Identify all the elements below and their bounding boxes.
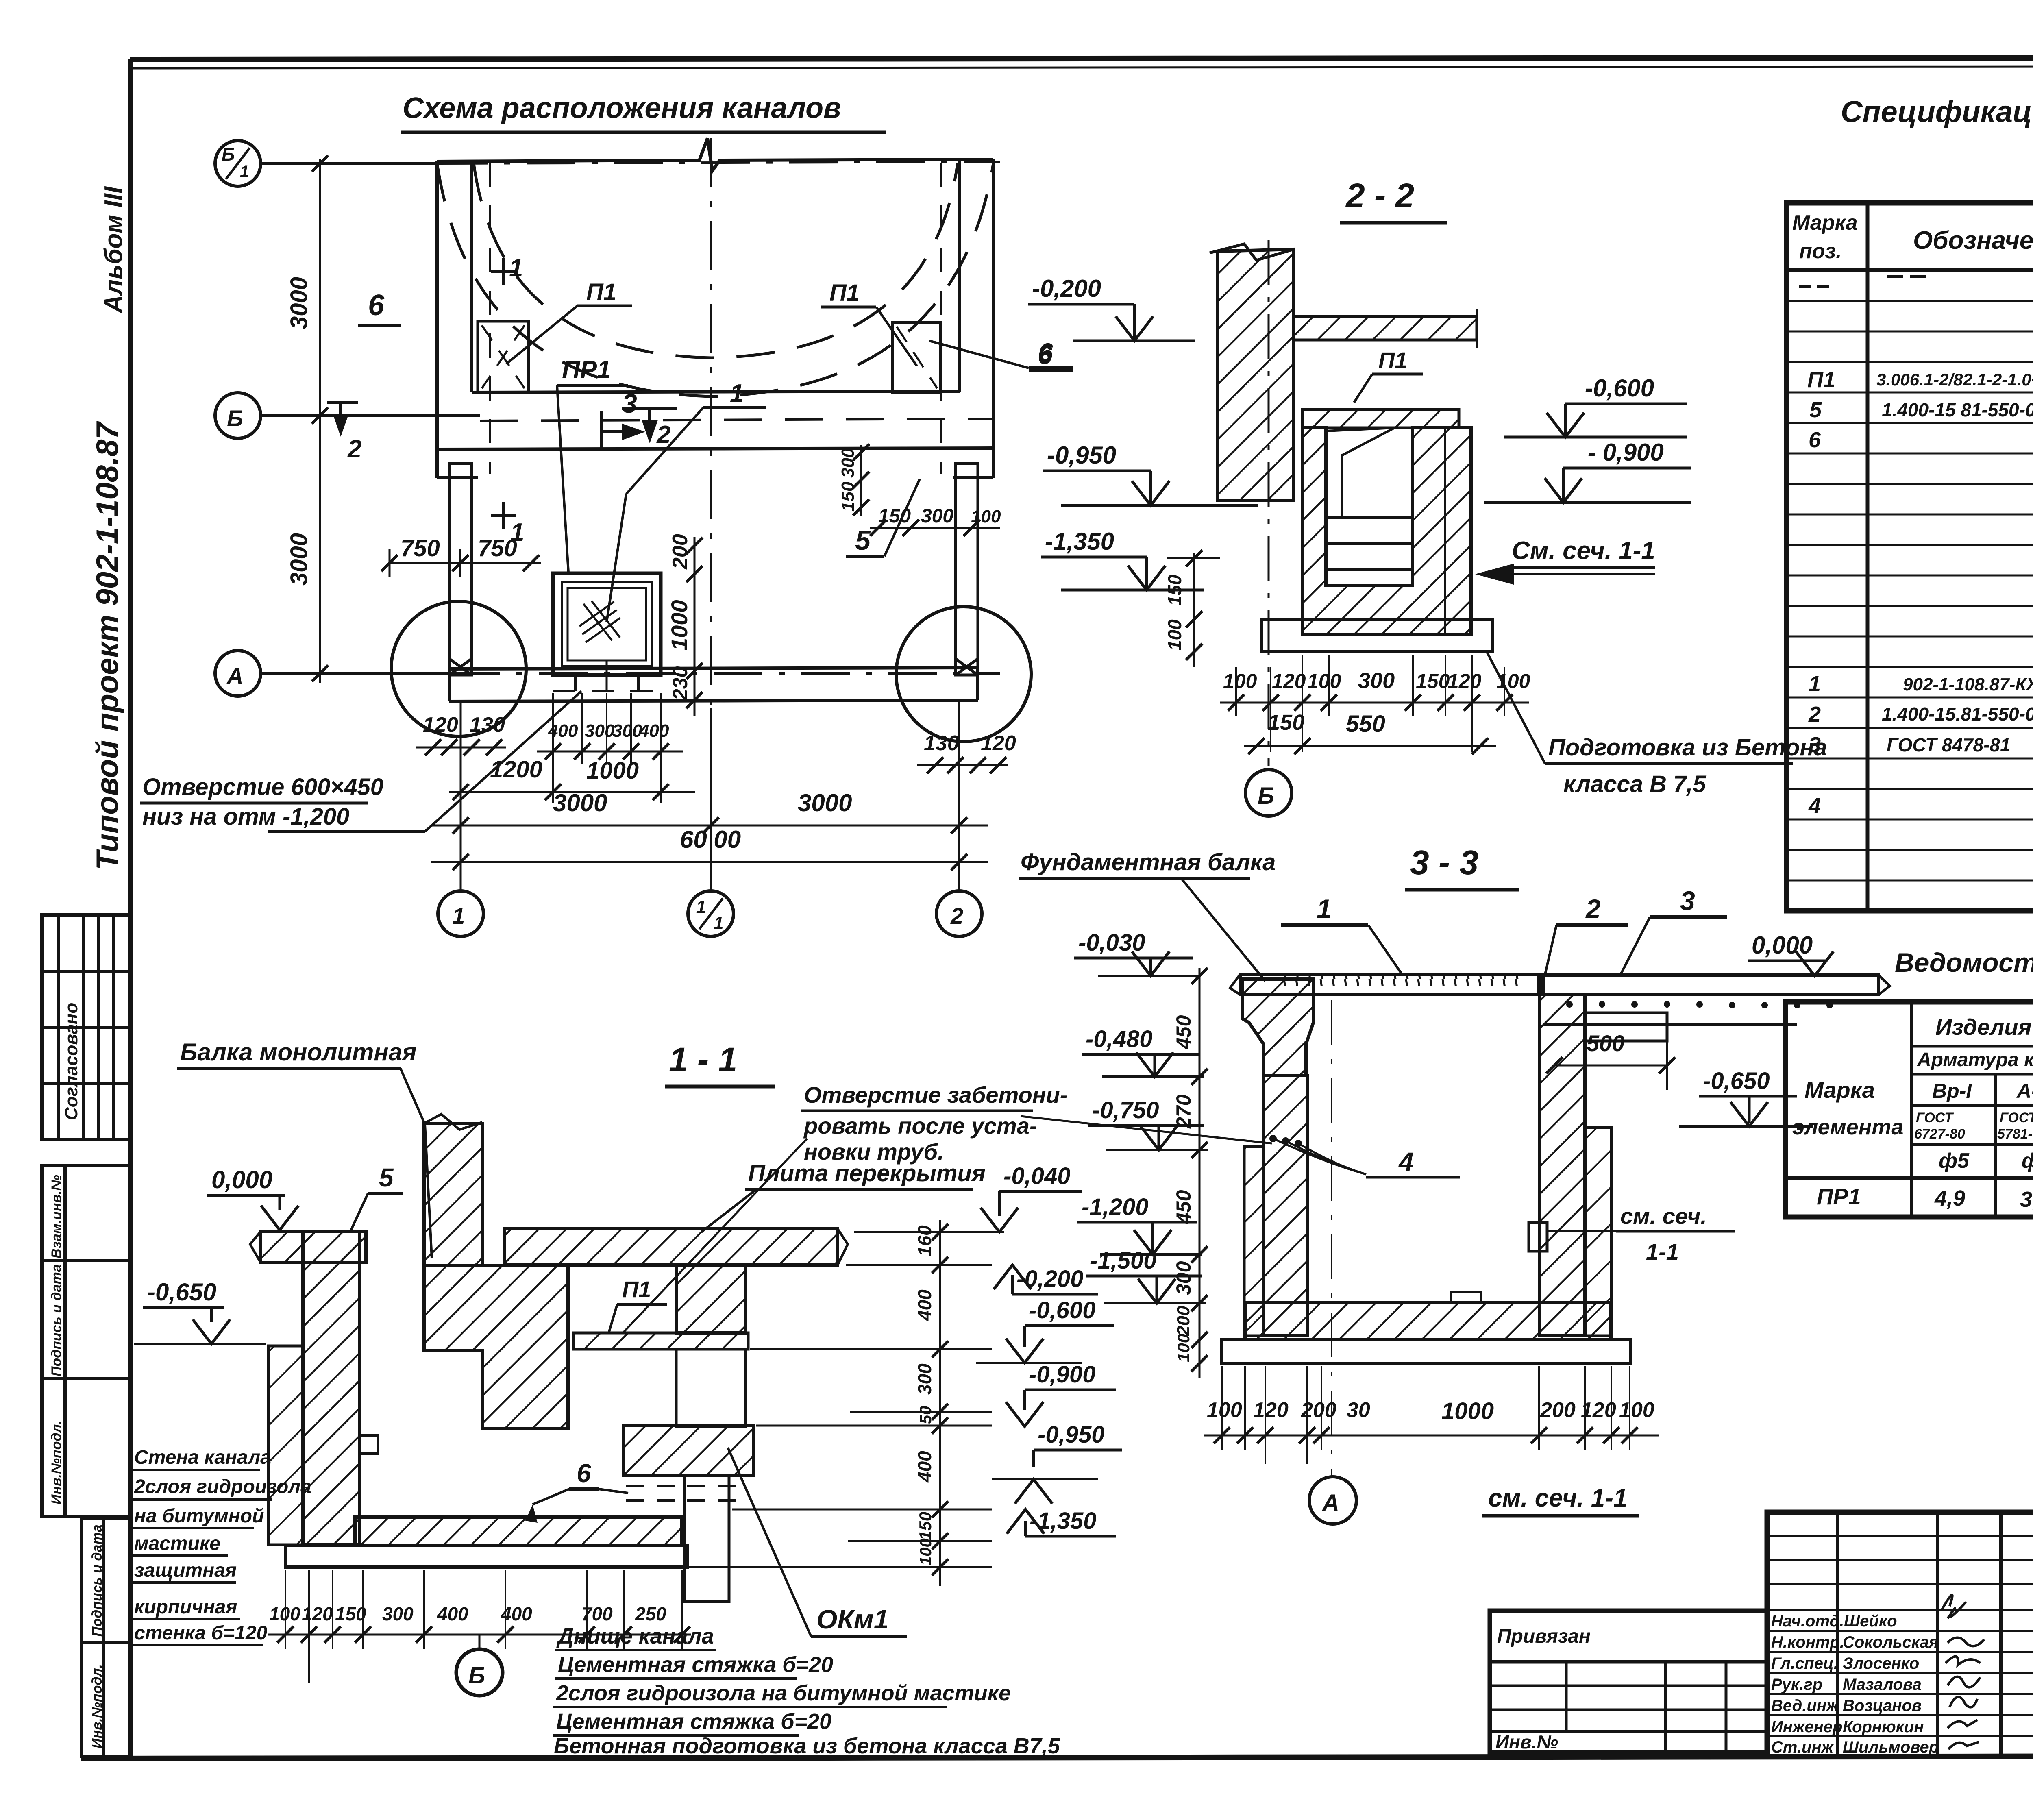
svg-text:300: 300	[1172, 1261, 1195, 1295]
svg-text:Злосенко: Злосенко	[1843, 1655, 1919, 1672]
svg-text:ровать после уста-: ровать после уста-	[803, 1113, 1037, 1139]
bottom dims row	[269, 1603, 666, 1624]
svg-text:2слоя гидроизола: 2слоя гидроизола	[134, 1476, 311, 1498]
svg-text:-0,200: -0,200	[1016, 1266, 1083, 1292]
grid axis B	[260, 414, 480, 417]
svg-text:6: 6	[368, 289, 385, 322]
svg-text:Ст.инж: Ст.инж	[1771, 1738, 1835, 1756]
svg-text:-0,030: -0,030	[1078, 930, 1145, 956]
svg-text:4: 4	[1398, 1147, 1414, 1177]
bottom slab днище	[355, 1517, 682, 1545]
left small slab	[261, 1232, 366, 1263]
bottom notes underlined	[554, 1624, 1060, 1758]
svg-text:3000: 3000	[553, 789, 607, 816]
svg-text:550: 550	[1346, 711, 1385, 737]
svg-text:2: 2	[1585, 894, 1601, 924]
bottom slab	[1245, 1303, 1611, 1339]
1-1 elevations right side	[1003, 1163, 1104, 1534]
centerline axis Б	[1268, 240, 1270, 766]
left outer wall	[435, 161, 439, 478]
right vertical dim chain of 1-1	[939, 1220, 941, 1586]
section mark 3	[602, 411, 640, 449]
svg-text:на битумной: на битумной	[134, 1505, 264, 1527]
pit dashed bottom	[553, 675, 661, 691]
svg-text:100: 100	[1164, 619, 1185, 651]
svg-text:5: 5	[855, 525, 871, 556]
svg-text:1: 1	[1317, 894, 1332, 924]
circle Б below	[1245, 770, 1292, 816]
svg-text:П1: П1	[1378, 347, 1407, 373]
svg-text:Схема расположения каналов: Схема расположения каналов	[403, 92, 841, 124]
small protrusion on wall	[360, 1435, 378, 1454]
svg-text:ПР1: ПР1	[562, 356, 611, 384]
svg-text:Марка: Марка	[1792, 211, 1858, 235]
svg-text:300: 300	[382, 1603, 414, 1624]
svg-text:1000: 1000	[1441, 1398, 1494, 1424]
svg-text:100: 100	[1207, 1398, 1242, 1422]
svg-text:Б: Б	[222, 144, 235, 165]
svg-text:-1,200: -1,200	[1082, 1194, 1148, 1220]
signatures scribbles	[1942, 1595, 1984, 1749]
right column above slab	[676, 1265, 746, 1333]
circle Б	[479, 1635, 481, 1649]
svg-text:6727-80: 6727-80	[1914, 1126, 1965, 1142]
svg-text:0,000: 0,000	[1752, 932, 1813, 959]
svg-text:Нач.отд.: Нач.отд.	[1771, 1612, 1844, 1630]
svg-text:-0,750: -0,750	[1092, 1097, 1159, 1123]
svg-text:Плита перекрытия: Плита перекрытия	[748, 1160, 986, 1186]
svg-text:Шильмовер: Шильмовер	[1843, 1738, 1939, 1756]
svg-text:Б: Б	[227, 405, 243, 431]
building outline	[437, 138, 993, 478]
фундаментная балка trapezoid left	[1242, 979, 1313, 1075]
svg-text:1: 1	[714, 913, 723, 933]
svg-text:3000: 3000	[798, 789, 852, 816]
svg-text:П1: П1	[829, 280, 860, 306]
svg-text:Вр-I: Вр-I	[1932, 1080, 1972, 1102]
svg-text:250: 250	[635, 1603, 666, 1624]
right wall	[1539, 995, 1585, 1336]
dims 750 750	[390, 562, 541, 564]
left elevations	[1078, 930, 1159, 1274]
svg-text:160: 160	[914, 1225, 935, 1256]
svg-text:200: 200	[1540, 1398, 1576, 1422]
svg-text:150: 150	[916, 1512, 935, 1540]
П1 slab left (plan)	[478, 321, 529, 392]
svg-text:150: 150	[838, 481, 858, 512]
svg-text:Взам.инв.№: Взам.инв.№	[49, 1175, 64, 1258]
svg-text:Инженер: Инженер	[1771, 1718, 1842, 1736]
svg-text:см. сеч.: см. сеч.	[1620, 1203, 1707, 1229]
svg-text:3,6: 3,6	[2020, 1187, 2033, 1212]
svg-text:5: 5	[1809, 398, 1822, 422]
svg-text:300: 300	[914, 1363, 935, 1395]
section mark 1 upper	[491, 258, 516, 285]
svg-text:-0,600: -0,600	[1029, 1297, 1095, 1324]
svg-text:902-1-108.87-КЖ1.1-Щ1: 902-1-108.87-КЖ1.1-Щ1	[1903, 675, 2033, 694]
svg-text:Альбом III: Альбом III	[100, 186, 128, 314]
detail circles	[391, 601, 526, 736]
svg-text:Рук.гр: Рук.гр	[1771, 1676, 1822, 1694]
foundation beam at axis A	[449, 668, 978, 701]
central mass stepped	[424, 1266, 568, 1428]
channel walls	[1302, 428, 1471, 635]
top slab плита перекрытия	[505, 1229, 838, 1265]
svg-text:-0,600: -0,600	[1585, 374, 1654, 402]
svg-text:300: 300	[838, 448, 858, 478]
svg-text:6: 6	[1038, 340, 1052, 370]
svg-text:200: 200	[668, 534, 692, 570]
svg-text:Обозначение: Обозначение	[1913, 226, 2033, 255]
vertical dim line 3000/3000	[319, 159, 321, 683]
svg-text:1-1: 1-1	[1646, 1239, 1679, 1265]
svg-text:поз.: поз.	[1799, 239, 1842, 263]
bottom axis circles	[438, 891, 483, 936]
svg-text:См. сеч. 1-1: См. сеч. 1-1	[1512, 537, 1655, 565]
svg-text:Б: Б	[468, 1662, 485, 1689]
svg-text:6: 6	[1809, 428, 1821, 452]
extension lines to bottom circles	[460, 701, 462, 890]
rungs inside	[1326, 516, 1413, 519]
svg-text:Спецификация к схеме рас: Спецификация к схеме расположения	[1841, 95, 2033, 128]
svg-text:-0,650: -0,650	[1703, 1068, 1770, 1094]
left stamp table 2	[42, 1165, 129, 1517]
svg-text:кирпичная: кирпичная	[134, 1596, 237, 1618]
small ledge inside bottom	[1451, 1292, 1481, 1303]
svg-text:ГОСТ: ГОСТ	[1916, 1110, 1954, 1126]
svg-text:низ на отм -1,200: низ на отм -1,200	[142, 803, 349, 830]
grid axis B/1	[260, 162, 439, 165]
svg-text:2: 2	[656, 421, 670, 449]
circle A	[1331, 1476, 1333, 1477]
svg-text:3000: 3000	[286, 277, 312, 329]
svg-text:Марка: Марка	[1804, 1077, 1875, 1103]
svg-text:150: 150	[1164, 575, 1185, 606]
beam band across	[472, 391, 960, 392]
svg-text:300: 300	[585, 721, 615, 741]
svg-text:400: 400	[914, 1289, 935, 1321]
svg-text:Цементная стяжка б=20: Цементная стяжка б=20	[558, 1652, 833, 1677]
svg-text:2: 2	[1808, 702, 1821, 727]
svg-text:-1,350: -1,350	[1030, 1508, 1096, 1534]
svg-text:750: 750	[401, 535, 440, 562]
svg-text:-1,350: -1,350	[1045, 528, 1114, 555]
svg-text:3: 3	[1809, 733, 1821, 757]
left wall	[303, 1232, 360, 1545]
vertical small dims left of base	[1193, 553, 1195, 667]
svg-text:0,000: 0,000	[211, 1166, 272, 1193]
svg-text:230: 230	[669, 666, 692, 701]
svg-text:400: 400	[914, 1451, 935, 1483]
svg-text:-1,500: -1,500	[1090, 1247, 1156, 1274]
svg-text:100: 100	[917, 1538, 935, 1565]
svg-text:100: 100	[1307, 670, 1341, 692]
svg-text:ГОСТ: ГОСТ	[2000, 1110, 2033, 1126]
svg-text:5781-82*: 5781-82*	[1997, 1126, 2033, 1142]
svg-text:750: 750	[478, 535, 517, 562]
extension lines down	[1236, 655, 1504, 752]
svg-text:1 - 1: 1 - 1	[669, 1041, 737, 1079]
svg-text:2: 2	[347, 435, 361, 463]
svg-text:4: 4	[1808, 794, 1821, 818]
svg-text:-0,480: -0,480	[1086, 1026, 1152, 1052]
svg-text:1: 1	[240, 163, 249, 181]
svg-text:П1: П1	[586, 279, 616, 305]
svg-text:см. сеч. 1-1: см. сеч. 1-1	[1488, 1484, 1627, 1512]
svg-text:П1: П1	[1807, 368, 1835, 392]
svg-text:- 0,900: - 0,900	[1588, 439, 1664, 466]
svg-text:-0,900: -0,900	[1029, 1361, 1095, 1388]
svg-text:Инв.№: Инв.№	[1495, 1731, 1558, 1753]
svg-text:450: 450	[1172, 1015, 1195, 1049]
svg-text:Гл.спец.: Гл.спец.	[1771, 1655, 1838, 1672]
svg-text:Фундаментная балка: Фундаментная балка	[1021, 849, 1276, 875]
svg-text:300: 300	[921, 505, 953, 527]
left wall	[1264, 1075, 1307, 1336]
svg-text:120: 120	[423, 713, 458, 737]
svg-text:3: 3	[622, 388, 637, 418]
svg-text:ПР1: ПР1	[1817, 1184, 1861, 1209]
dashed circle wall of pump station	[474, 163, 958, 358]
svg-text:2 - 2: 2 - 2	[1345, 176, 1414, 215]
svg-text:1200: 1200	[490, 756, 542, 783]
svg-text:100: 100	[1223, 670, 1257, 692]
svg-text:3000: 3000	[286, 533, 312, 586]
svg-text:1000: 1000	[666, 600, 692, 651]
svg-text:1: 1	[1809, 672, 1821, 696]
svg-text:-0,040: -0,040	[1003, 1163, 1070, 1189]
svg-text:Мазалова: Мазалова	[1843, 1676, 1922, 1694]
svg-text:А: А	[1321, 1490, 1339, 1516]
svg-text:120: 120	[1253, 1398, 1289, 1422]
svg-text:200: 200	[1301, 1398, 1336, 1422]
svg-text:130: 130	[470, 713, 505, 737]
svg-text:150: 150	[335, 1603, 366, 1624]
svg-text:300: 300	[612, 721, 642, 741]
vertical dim chain	[1199, 968, 1201, 1378]
svg-text:-0,650: -0,650	[147, 1278, 216, 1306]
svg-text:1.400-15 81-550-04: 1.400-15 81-550-04	[1882, 399, 2033, 420]
svg-text:3 - 3: 3 - 3	[1410, 843, 1478, 882]
svg-text:Отверстие 600×450: Отверстие 600×450	[142, 774, 383, 800]
П1 slab right (plan)	[892, 322, 940, 392]
svg-text:120: 120	[1447, 670, 1482, 692]
svg-text:-0,950: -0,950	[1047, 442, 1116, 469]
svg-text:120: 120	[1272, 670, 1306, 692]
svg-text:300: 300	[1358, 668, 1395, 693]
svg-text:Сокольская: Сокольская	[1843, 1633, 1938, 1651]
svg-text:ОКм1: ОКм1	[816, 1604, 888, 1634]
channel: top slab piece	[1302, 409, 1459, 428]
svg-text:Возцанов: Возцанов	[1843, 1697, 1922, 1715]
svg-text:Днище канала: Днище канала	[556, 1624, 714, 1648]
svg-text:120: 120	[981, 731, 1016, 755]
svg-text:ф12: ф12	[2022, 1149, 2033, 1173]
left margin album text	[61, 186, 128, 1120]
horizontal level lines to the right chain	[689, 1232, 1004, 1567]
svg-text:Ведомость расхода стали н: Ведомость расхода стали на элемент, кг	[1895, 947, 2033, 977]
left stamp table 1	[42, 915, 129, 1139]
svg-text:Вед.инж: Вед.инж	[1771, 1697, 1839, 1715]
svg-text:2: 2	[950, 903, 963, 929]
svg-text:защитная: защитная	[134, 1560, 237, 1581]
name rows	[1771, 1612, 1939, 1756]
svg-text:Привязан: Привязан	[1497, 1626, 1591, 1647]
svg-text:Изделия арматурные: Изделия арматурные	[1935, 1014, 2033, 1040]
svg-text:П1: П1	[622, 1276, 651, 1302]
svg-text:Стена канала: Стена канала	[134, 1447, 271, 1468]
svg-text:1: 1	[730, 379, 744, 407]
vertical dim chain right of pit: 200 1000 230	[694, 537, 696, 716]
pit ПР1	[553, 573, 661, 675]
svg-text:100: 100	[1174, 1334, 1193, 1362]
right outer wall	[992, 159, 995, 478]
svg-text:Б: Б	[1258, 783, 1274, 809]
top slab left part	[1240, 974, 1539, 995]
top wall line	[437, 138, 993, 171]
ОКм1 block	[624, 1426, 754, 1476]
svg-text:30: 30	[1347, 1398, 1370, 1422]
svg-text:1.400-15.81-550-07: 1.400-15.81-550-07	[1882, 703, 2033, 725]
svg-text:Балка монолитная: Балка монолитная	[180, 1038, 416, 1066]
columns below	[449, 464, 978, 675]
grid axis A	[260, 672, 451, 675]
svg-text:3.006.1-2/82.1-2-1.0÷016: 3.006.1-2/82.1-2-1.0÷016	[1876, 370, 2033, 389]
svg-text:ф5: ф5	[1939, 1149, 1970, 1173]
П1 slab thin	[574, 1333, 748, 1349]
wall hidden dashed verticals	[489, 163, 491, 474]
center axis 1/1 dash-dot	[710, 138, 712, 708]
big wall hatched	[1218, 249, 1294, 501]
svg-text:200: 200	[1173, 1306, 1193, 1336]
svg-text:класса В 7,5: класса В 7,5	[1563, 771, 1706, 797]
dots + label 4	[1269, 1135, 1277, 1142]
svg-text:Шейко: Шейко	[1844, 1612, 1897, 1630]
bottom dims	[1207, 1398, 1654, 1424]
pit scribble	[579, 601, 620, 642]
svg-text:2слоя гидроизола на битумной м: 2слоя гидроизола на битумной мастике	[556, 1681, 1011, 1705]
svg-text:Инв.№подл.: Инв.№подл.	[49, 1420, 64, 1504]
svg-text:-0,200: -0,200	[1032, 275, 1101, 302]
svg-text:500: 500	[1587, 1030, 1624, 1056]
балка монолитная column	[424, 1123, 482, 1266]
svg-text:130: 130	[924, 731, 959, 755]
svg-text:450: 450	[1172, 1190, 1195, 1224]
svg-text:400: 400	[639, 721, 669, 741]
top slab right part	[1543, 975, 1878, 995]
svg-text:4,9: 4,9	[1934, 1186, 1965, 1210]
section marks 2 at axis Б	[327, 403, 358, 432]
svg-text:Цементная стяжка б=20: Цементная стяжка б=20	[556, 1709, 831, 1734]
base slab	[1261, 619, 1493, 652]
svg-text:6: 6	[577, 1459, 591, 1488]
inner centerline	[1331, 1000, 1332, 1476]
svg-text:100: 100	[971, 507, 1001, 527]
svg-text:1: 1	[696, 897, 706, 917]
svg-text:А-III: А-III	[2016, 1080, 2033, 1102]
svg-text:5: 5	[379, 1163, 394, 1192]
svg-text:150: 150	[1268, 710, 1304, 735]
svg-text:Арматура класса: Арматура класса	[1917, 1049, 2033, 1071]
svg-text:1: 1	[509, 254, 523, 282]
svg-text:Типовой проект 902-1-108.87: Типовой проект 902-1-108.87	[90, 421, 125, 870]
left stamp table 3	[81, 1519, 129, 1757]
svg-text:50: 50	[917, 1406, 935, 1424]
svg-text:270: 270	[1172, 1094, 1195, 1129]
svg-text:мастике: мастике	[134, 1533, 220, 1554]
svg-text:Отверстие забетони-: Отверстие забетони-	[804, 1082, 1067, 1108]
svg-text:ГОСТ 8478-81: ГОСТ 8478-81	[1887, 734, 2011, 755]
svg-text:А: А	[226, 663, 243, 689]
svg-text:стенка б=120: стенка б=120	[134, 1622, 268, 1644]
left label stack	[134, 1447, 311, 1644]
svg-text:Бетонная подготовка из бетон: Бетонная подготовка из бетона класса В7,…	[554, 1734, 1060, 1758]
section mark 1 lower	[491, 502, 516, 529]
svg-text:Н.контр.: Н.контр.	[1771, 1633, 1844, 1651]
Привязан table	[1490, 1611, 1767, 1753]
svg-text:Согласовано: Согласовано	[61, 1003, 81, 1120]
svg-text:100: 100	[1619, 1398, 1654, 1422]
svg-text:-0,950: -0,950	[1038, 1422, 1104, 1448]
slab П1 top	[1294, 316, 1477, 340]
svg-text:400: 400	[437, 1603, 468, 1624]
svg-text:120: 120	[302, 1603, 333, 1624]
svg-text:3: 3	[1680, 886, 1695, 916]
svg-text:элемента: элемента	[1792, 1115, 1903, 1139]
dashed lines inside beam band	[480, 419, 992, 421]
svg-text:Корнюкин: Корнюкин	[1843, 1718, 1924, 1736]
svg-text:1000: 1000	[586, 758, 639, 784]
svg-text:Подпись и дата: Подпись и дата	[49, 1264, 64, 1376]
small dims near right column: 150 300 rotated + horizontal	[860, 445, 862, 516]
svg-text:1: 1	[452, 903, 465, 929]
